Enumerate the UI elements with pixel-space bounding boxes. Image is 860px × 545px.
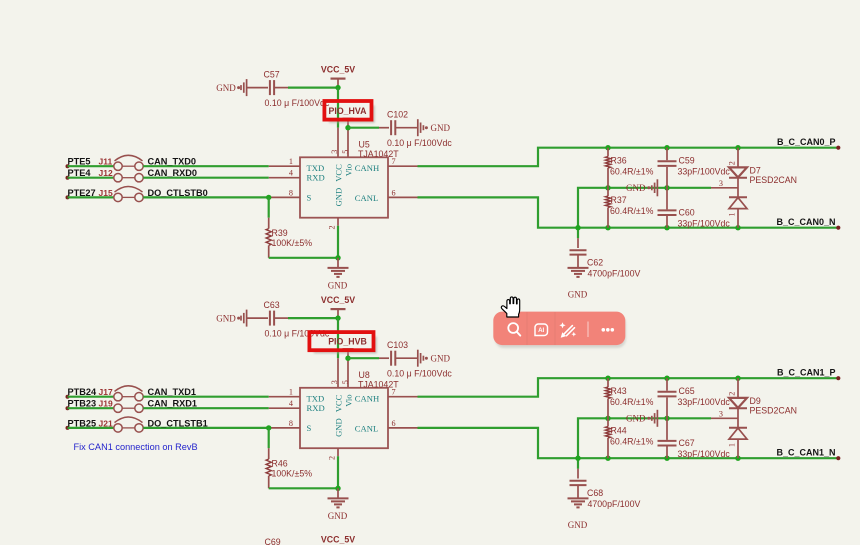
svg-text:AI: AI: [538, 327, 544, 334]
svg-text:C67: C67: [679, 438, 695, 448]
svg-text:100K/±5%: 100K/±5%: [272, 469, 313, 479]
svg-text:S: S: [307, 193, 312, 203]
svg-text:Vio: Vio: [344, 164, 354, 176]
svg-text:GND: GND: [431, 353, 451, 363]
svg-text:J11: J11: [99, 157, 113, 167]
svg-text:GND: GND: [568, 289, 588, 299]
svg-text:B_C_CAN1_P: B_C_CAN1_P: [777, 367, 836, 377]
svg-text:DO_CTLSTB1: DO_CTLSTB1: [148, 418, 208, 428]
svg-text:R46: R46: [272, 458, 288, 468]
svg-text:C69: C69: [265, 537, 281, 545]
svg-text:33pF/100Vdc: 33pF/100Vdc: [678, 219, 731, 229]
svg-text:GND: GND: [216, 83, 236, 93]
svg-text:2: 2: [328, 225, 337, 229]
svg-text:GND: GND: [568, 520, 588, 530]
svg-text:33pF/100Vdc: 33pF/100Vdc: [678, 449, 731, 459]
svg-text:CAN_RXD1: CAN_RXD1: [148, 399, 198, 409]
svg-text:GND: GND: [328, 281, 348, 291]
svg-text:J21: J21: [99, 418, 113, 428]
svg-text:VCC_5V: VCC_5V: [321, 295, 355, 305]
svg-text:CAN_TXD0: CAN_TXD0: [148, 157, 197, 167]
svg-text:CANH: CANH: [355, 163, 379, 173]
svg-text:GND: GND: [216, 313, 236, 323]
svg-text:DO_CTLSTB0: DO_CTLSTB0: [148, 188, 208, 198]
svg-text:R44: R44: [611, 426, 627, 436]
svg-text:60.4R/±1%: 60.4R/±1%: [610, 397, 654, 407]
svg-text:PTB25: PTB25: [68, 418, 97, 428]
svg-text:B_C_CAN1_N: B_C_CAN1_N: [776, 447, 835, 457]
svg-text:GND: GND: [626, 414, 646, 424]
svg-text:PTB24: PTB24: [68, 387, 97, 397]
svg-text:60.4R/±1%: 60.4R/±1%: [610, 206, 654, 216]
svg-text:GND: GND: [333, 418, 343, 437]
svg-text:C65: C65: [679, 386, 695, 396]
svg-text:4: 4: [289, 169, 293, 178]
svg-text:VCC_5V: VCC_5V: [321, 534, 355, 544]
svg-text:CAN_TXD1: CAN_TXD1: [148, 387, 197, 397]
svg-text:0.10 μ F/100Vdc: 0.10 μ F/100Vdc: [387, 368, 452, 378]
svg-text:2: 2: [328, 456, 337, 460]
svg-text:C68: C68: [587, 488, 603, 498]
svg-text:0.10 μ F/100Vdc: 0.10 μ F/100Vdc: [265, 98, 330, 108]
svg-text:TJA1042T: TJA1042T: [358, 379, 399, 389]
svg-text:PESD2CAN: PESD2CAN: [750, 175, 797, 185]
svg-text:C59: C59: [679, 156, 695, 166]
svg-text:4700pF/100V: 4700pF/100V: [588, 268, 641, 278]
svg-text:C60: C60: [679, 207, 695, 217]
svg-text:VCC_5V: VCC_5V: [321, 65, 355, 75]
svg-text:3: 3: [719, 179, 723, 188]
svg-text:1: 1: [727, 443, 736, 447]
svg-text:CANL: CANL: [355, 424, 378, 434]
svg-text:J17: J17: [99, 387, 113, 397]
svg-text:CANL: CANL: [355, 193, 378, 203]
svg-text:R37: R37: [611, 195, 627, 205]
svg-text:R43: R43: [611, 386, 627, 396]
svg-text:3: 3: [330, 380, 339, 384]
svg-text:VCC: VCC: [333, 164, 343, 182]
svg-text:5: 5: [341, 150, 350, 154]
svg-text:TJA1042T: TJA1042T: [358, 149, 399, 159]
svg-text:1: 1: [727, 213, 736, 217]
svg-text:RXD: RXD: [307, 403, 325, 413]
svg-text:PTE5: PTE5: [68, 157, 91, 167]
svg-text:4: 4: [289, 399, 293, 408]
svg-text:PIO_HVA: PIO_HVA: [329, 106, 368, 116]
svg-text:S: S: [307, 423, 312, 433]
svg-text:0.10 μ F/100Vdc: 0.10 μ F/100Vdc: [387, 138, 452, 148]
svg-text:U5: U5: [359, 139, 370, 149]
svg-text:RXD: RXD: [307, 172, 325, 182]
svg-text:GND: GND: [328, 511, 348, 521]
svg-text:CANH: CANH: [355, 394, 379, 404]
svg-text:B_C_CAN0_P: B_C_CAN0_P: [777, 137, 836, 147]
svg-text:CAN_RXD0: CAN_RXD0: [148, 168, 198, 178]
svg-text:60.4R/±1%: 60.4R/±1%: [610, 166, 654, 176]
svg-text:B_C_CAN0_N: B_C_CAN0_N: [776, 217, 835, 227]
svg-text:J15: J15: [99, 188, 113, 198]
svg-text:1: 1: [289, 157, 293, 166]
svg-text:C63: C63: [264, 300, 280, 310]
svg-text:PESD2CAN: PESD2CAN: [750, 406, 797, 416]
svg-text:R36: R36: [611, 156, 627, 166]
svg-text:6: 6: [392, 419, 396, 428]
svg-text:33pF/100Vdc: 33pF/100Vdc: [678, 166, 731, 176]
svg-text:PTE4: PTE4: [68, 168, 92, 178]
svg-text:J19: J19: [99, 399, 113, 409]
svg-text:2: 2: [727, 161, 736, 165]
svg-text:2: 2: [727, 392, 736, 396]
svg-text:100K/±5%: 100K/±5%: [272, 238, 313, 248]
svg-text:C103: C103: [387, 340, 408, 350]
svg-text:6: 6: [392, 189, 396, 198]
svg-text:U8: U8: [359, 370, 370, 380]
svg-text:PTB23: PTB23: [68, 399, 97, 409]
svg-text:3: 3: [330, 150, 339, 154]
svg-text:8: 8: [289, 188, 293, 197]
svg-text:4700pF/100V: 4700pF/100V: [588, 499, 641, 509]
svg-text:60.4R/±1%: 60.4R/±1%: [610, 437, 654, 447]
svg-text:PIO_HVB: PIO_HVB: [328, 337, 367, 347]
svg-text:PTE27: PTE27: [68, 188, 96, 198]
svg-text:8: 8: [289, 419, 293, 428]
svg-text:5: 5: [341, 380, 350, 384]
svg-text:C102: C102: [387, 110, 408, 120]
svg-text:GND: GND: [626, 183, 646, 193]
svg-text:Fix CAN1 connection on RevB: Fix CAN1 connection on RevB: [74, 442, 198, 452]
svg-text:C62: C62: [587, 258, 603, 268]
svg-text:1: 1: [289, 388, 293, 397]
svg-text:R39: R39: [272, 228, 288, 238]
svg-text:GND: GND: [333, 188, 343, 207]
svg-text:GND: GND: [431, 123, 451, 133]
svg-text:33pF/100Vdc: 33pF/100Vdc: [678, 397, 731, 407]
svg-text:3: 3: [719, 410, 723, 419]
svg-text:J12: J12: [99, 168, 113, 178]
svg-text:C57: C57: [264, 70, 280, 80]
svg-text:Vio: Vio: [344, 394, 354, 406]
svg-text:VCC: VCC: [333, 394, 343, 412]
